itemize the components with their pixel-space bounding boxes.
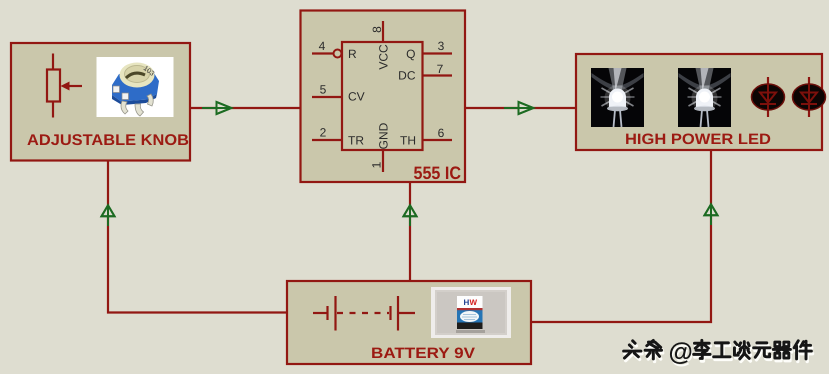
svg-text:6: 6 (438, 126, 445, 140)
battery 9V photo (431, 287, 511, 338)
block HIGH POWER LED box (576, 54, 822, 150)
IC body U1 (342, 42, 423, 150)
pin 8 (VCC) stub (382, 21, 384, 42)
svg-text:GND: GND (377, 122, 391, 149)
svg-text:2: 2 (320, 126, 327, 140)
svg-text:CV: CV (348, 90, 365, 104)
svg-text:5: 5 (320, 83, 327, 97)
pin 6 (TH) stub (423, 139, 453, 141)
svg-text:ADJUSTABLE KNOB: ADJUSTABLE KNOB (27, 132, 189, 149)
svg-text:7: 7 (437, 62, 444, 76)
svg-text:HIGH POWER LED: HIGH POWER LED (625, 131, 771, 148)
block 555 IC outer box (301, 11, 466, 183)
wire 555 to LED block (465, 107, 576, 109)
LED D1 symbol (752, 77, 785, 117)
svg-text:TH: TH (400, 134, 416, 148)
svg-text:VCC: VCC (377, 44, 391, 70)
svg-text:1: 1 (370, 161, 384, 168)
pin 2 (TR) stub (312, 139, 342, 141)
block BATTERY 9V box (287, 281, 531, 364)
pin 3 (Q) stub (423, 52, 453, 54)
wire knob to 555 (190, 107, 300, 109)
buffer arrow (inter-block, left) (202, 102, 231, 114)
LED D2 symbol (793, 77, 826, 117)
svg-text:Q: Q (406, 47, 415, 61)
buffer arrow (inter-block, right) (504, 102, 533, 114)
svg-text:4: 4 (319, 39, 326, 53)
svg-text:TR: TR (348, 134, 364, 148)
LED photo 2 (678, 68, 731, 127)
pin 5 (CV) stub (312, 96, 342, 98)
power-flow arrow up (right) (705, 204, 718, 225)
svg-text:R: R (348, 47, 357, 61)
pin 1 (GND) stub (382, 150, 384, 172)
potentiometer symbol (adjustable resistor) (47, 54, 82, 118)
svg-text:3: 3 (438, 39, 445, 53)
svg-text:8: 8 (370, 26, 384, 33)
LED photo 1 (591, 68, 644, 127)
wire 555 down to battery (409, 182, 411, 281)
svg-text:@: @ (669, 338, 693, 366)
watermark 头条 @李工谈元器件 (624, 338, 813, 369)
block ADJUSTABLE KNOB box (11, 43, 190, 161)
svg-text:DC: DC (398, 69, 416, 83)
battery symbol BAT1 (313, 296, 415, 331)
svg-text:BATTERY 9V: BATTERY 9V (371, 345, 475, 362)
pin 7 (DC) stub (423, 74, 453, 76)
wire LED down to battery (531, 150, 711, 322)
power-flow arrow up (middle) (404, 205, 417, 226)
wire knob down to battery (108, 161, 287, 313)
pin 4 (R) stub with bubble (312, 52, 333, 54)
trimmer potentiometer photo (97, 57, 174, 117)
svg-text:W: W (470, 298, 478, 307)
power-flow arrow up (left) (102, 205, 115, 226)
svg-text:555 IC: 555 IC (414, 163, 462, 183)
